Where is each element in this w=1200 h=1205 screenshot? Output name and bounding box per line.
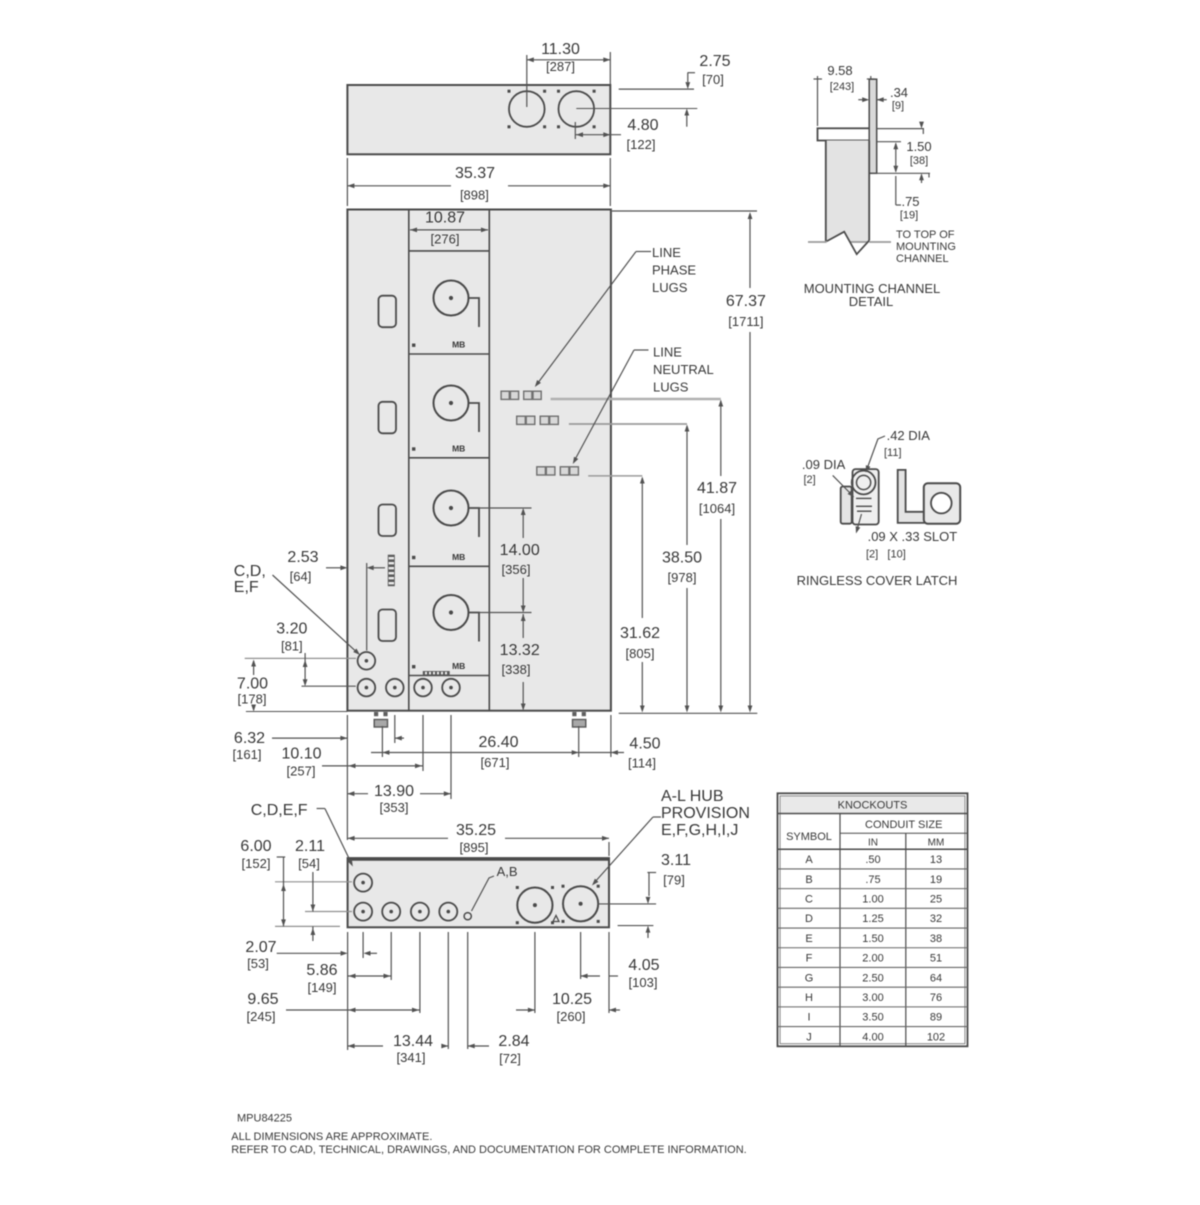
svg-text:MPU84225: MPU84225 [237, 1113, 292, 1125]
svg-text:LUGS: LUGS [652, 280, 688, 295]
svg-text:7.00: 7.00 [237, 676, 268, 693]
meter socket 2 ring [434, 386, 469, 421]
left knockout K1 [379, 296, 397, 328]
mounting channel flange [818, 128, 876, 140]
svg-text:LINE: LINE [652, 245, 681, 260]
svg-text:[79]: [79] [663, 873, 685, 888]
ground line [808, 241, 891, 243]
svg-text:CHANNEL: CHANNEL [896, 253, 949, 265]
line neutral lugs row 3 [537, 467, 546, 475]
svg-text:A-L HUB: A-L HUB [661, 788, 724, 805]
svg-text:25: 25 [930, 893, 942, 905]
svg-text:MOUNTING: MOUNTING [896, 241, 956, 253]
svg-text:.09 X .33 SLOT: .09 X .33 SLOT [868, 529, 958, 544]
leader .42 DIA [867, 436, 885, 470]
svg-text:[2]: [2] [804, 474, 816, 486]
meter socket 1 compartment divider [409, 353, 490, 355]
svg-text:C: C [805, 893, 813, 905]
dimension 38.50 [978] [686, 426, 688, 545]
svg-text:2.07: 2.07 [245, 939, 276, 956]
svg-text:MM: MM [928, 838, 945, 849]
row 1 extension line [551, 398, 721, 400]
svg-text:1.00: 1.00 [862, 893, 883, 905]
svg-text:76: 76 [930, 992, 942, 1004]
vertical striped knockout [388, 555, 395, 587]
svg-text:[898]: [898] [460, 188, 489, 203]
bottom row small circles [358, 679, 376, 697]
bottom view row of small circles [354, 903, 372, 921]
mounting channel detail 9.58 [243] dimension [817, 76, 819, 126]
svg-text:2.11: 2.11 [295, 838, 325, 855]
meter column right edge [488, 210, 490, 711]
svg-text:[11]: [11] [884, 447, 902, 459]
mounting channel foot right [572, 712, 576, 716]
meter socket 4 corner tick [412, 665, 415, 668]
svg-text:A: A [805, 854, 813, 866]
extension lines below front panel [346, 715, 348, 840]
meter socket 4 ring [434, 595, 469, 630]
svg-text:C,D,E,F: C,D,E,F [251, 802, 308, 819]
mounting channel foot left [374, 712, 378, 716]
svg-text:51: 51 [930, 953, 942, 965]
svg-text:[356]: [356] [502, 562, 531, 577]
leader A,B to tiny knockout [472, 876, 495, 911]
svg-text:NEUTRAL: NEUTRAL [653, 362, 714, 377]
svg-text:.34: .34 [890, 85, 908, 100]
panel bottom extension left [246, 711, 348, 713]
svg-text:89: 89 [930, 1012, 942, 1024]
latch body [853, 469, 879, 524]
leader C,D,E,F to circle [317, 808, 325, 810]
leader line through right circle center [576, 108, 697, 110]
dimension .75 [19] leader [895, 176, 897, 205]
dimension 11.30 [287] [526, 55, 528, 107]
svg-text:[81]: [81] [281, 639, 303, 654]
svg-text:TO TOP OF: TO TOP OF [896, 229, 955, 241]
svg-text:RINGLESS COVER LATCH: RINGLESS COVER LATCH [797, 573, 958, 588]
leader to line phase lugs [636, 251, 651, 253]
svg-text:A,B: A,B [497, 864, 518, 879]
svg-text:32: 32 [930, 913, 942, 925]
svg-text:2.50: 2.50 [862, 972, 883, 984]
meter socket 3 compartment divider [409, 565, 490, 567]
svg-text:E,F,G,H,I,J: E,F,G,H,I,J [661, 822, 738, 839]
svg-text:C,D,: C,D, [234, 563, 266, 580]
extension line from socket 3 center [470, 507, 532, 509]
svg-text:[2] [10]: [2] [10] [866, 549, 906, 561]
meter socket 1 ring [434, 281, 469, 316]
extension panel bottom left [275, 925, 340, 927]
svg-text:[671]: [671] [481, 755, 510, 770]
svg-text:[9]: [9] [892, 100, 904, 112]
meter socket 3 bypass hook [469, 508, 480, 537]
svg-text:[122]: [122] [627, 137, 656, 152]
dimension 67.37 [1711] [749, 214, 751, 288]
svg-text:.75: .75 [865, 874, 880, 886]
svg-text:3.20: 3.20 [276, 621, 307, 638]
meter socket 1 corner tick [412, 344, 415, 347]
dimension 35.25 [895] [608, 842, 610, 856]
meter socket 2 bypass hook [469, 403, 480, 432]
svg-text:[64]: [64] [290, 569, 312, 584]
svg-text:F: F [806, 953, 813, 965]
latch back plate [841, 487, 852, 524]
svg-text:35.37: 35.37 [455, 165, 495, 182]
svg-text:[245]: [245] [247, 1009, 276, 1024]
svg-text:.09 DIA: .09 DIA [802, 457, 846, 472]
svg-text:6.00: 6.00 [240, 838, 271, 855]
row1 extension line left [245, 657, 356, 659]
meter socket 4 bypass hook [469, 613, 480, 642]
svg-text:[978]: [978] [668, 570, 697, 585]
svg-text:41.87: 41.87 [697, 480, 737, 497]
dimension 13.32 [338] [522, 614, 524, 638]
meter column left edge [408, 210, 410, 711]
svg-text:[341]: [341] [397, 1050, 426, 1065]
svg-text:35.25: 35.25 [456, 822, 496, 839]
latch circle outer [852, 471, 876, 495]
svg-text:10.87: 10.87 [425, 210, 465, 227]
svg-text:G: G [805, 972, 814, 984]
svg-text:11.30: 11.30 [541, 41, 580, 58]
svg-text:MB: MB [452, 552, 465, 562]
left knockout K3 [379, 505, 397, 537]
svg-text:[1711]: [1711] [728, 314, 763, 329]
svg-text:[19]: [19] [900, 210, 918, 222]
meter socket 4 compartment divider [409, 675, 490, 677]
latch plate with hole [924, 483, 960, 523]
dimension 1.50 [38] [877, 141, 901, 143]
svg-text:[178]: [178] [238, 692, 267, 707]
svg-text:1.50: 1.50 [906, 139, 931, 154]
bottom extension line right of panel [619, 712, 758, 714]
svg-text:38: 38 [930, 933, 942, 945]
svg-text:9.58: 9.58 [827, 63, 852, 78]
svg-text:[53]: [53] [247, 956, 269, 971]
svg-text:3.50: 3.50 [862, 1012, 883, 1024]
svg-text:4.05: 4.05 [628, 957, 659, 974]
svg-text:DETAIL: DETAIL [849, 294, 894, 309]
meter socket 1 bypass hook [469, 298, 480, 327]
dimension 41.87 [1064] [720, 401, 722, 476]
dimension 35.37 [898] [346, 158, 348, 206]
svg-text:CONDUIT SIZE: CONDUIT SIZE [865, 819, 942, 831]
svg-text:E: E [805, 933, 812, 945]
knockouts table header cells [839, 814, 841, 1047]
svg-text:13: 13 [930, 854, 942, 866]
svg-text:IN: IN [868, 838, 878, 849]
svg-text:[805]: [805] [626, 646, 655, 661]
bottom view top edge emphasis [348, 858, 609, 860]
svg-text:2.00: 2.00 [862, 953, 883, 965]
dimension .34 [9] [858, 99, 866, 101]
latch circle inner [857, 475, 871, 489]
triangle mark between hubs [553, 916, 559, 922]
svg-text:[243]: [243] [830, 81, 854, 93]
svg-text:13.90: 13.90 [374, 783, 414, 800]
svg-text:PHASE: PHASE [652, 263, 696, 278]
svg-text:MB: MB [452, 443, 465, 453]
dimension 10.87 [276] [410, 229, 488, 231]
svg-text:2.84: 2.84 [498, 1033, 529, 1050]
svg-text:KNOCKOUTS: KNOCKOUTS [838, 800, 908, 812]
svg-text:2.75: 2.75 [699, 53, 730, 70]
svg-text:9.65: 9.65 [247, 991, 278, 1008]
svg-text:J: J [806, 1031, 812, 1043]
svg-text:LUGS: LUGS [653, 380, 689, 395]
svg-text:64: 64 [930, 972, 942, 984]
svg-text:13.32: 13.32 [500, 642, 540, 659]
svg-text:[54]: [54] [298, 856, 320, 871]
svg-text:31.62: 31.62 [620, 625, 660, 642]
svg-text:MB: MB [452, 340, 465, 350]
svg-text:[149]: [149] [308, 980, 337, 995]
svg-text:3.00: 3.00 [862, 992, 883, 1004]
svg-text:19: 19 [930, 874, 942, 886]
svg-text:E,F: E,F [234, 579, 259, 596]
leader A-L hub to right hub circle [653, 816, 661, 818]
row 3 extension line [588, 475, 642, 477]
extension line from socket 4 center [470, 612, 532, 614]
svg-text:MB: MB [452, 661, 465, 671]
svg-text:[161]: [161] [233, 747, 262, 762]
meter socket 2 compartment divider [409, 457, 490, 459]
svg-text:[72]: [72] [499, 1051, 521, 1066]
svg-text:H: H [805, 992, 813, 1004]
left knockout K4 [379, 610, 397, 642]
svg-text:D: D [805, 913, 813, 925]
svg-text:5.86: 5.86 [306, 962, 337, 979]
svg-text:4.80: 4.80 [627, 117, 658, 134]
horizontal striped knockout above bottom circles [423, 671, 450, 675]
mounting channel body [826, 141, 869, 242]
extension top of mounting channel [877, 128, 924, 130]
svg-text:[114]: [114] [628, 756, 656, 771]
dimension 4.80 [122] [574, 122, 576, 139]
knockouts table title row [781, 797, 965, 813]
svg-text:[260]: [260] [557, 1009, 586, 1024]
extension from small circle row1 left [275, 881, 352, 883]
svg-text:[895]: [895] [460, 840, 489, 855]
step line and .75 arrows [872, 172, 930, 174]
svg-text:[152]: [152] [242, 856, 271, 871]
top extension line for 67.37 [612, 210, 757, 212]
line neutral lugs row 2 [517, 416, 526, 424]
svg-text:14.00: 14.00 [500, 542, 540, 559]
svg-text:[276]: [276] [431, 232, 460, 247]
svg-text:[353]: [353] [380, 800, 409, 815]
svg-text:[1064]: [1064] [699, 501, 735, 516]
svg-text:1.50: 1.50 [862, 933, 883, 945]
svg-text:SYMBOL: SYMBOL [786, 831, 832, 843]
top view knockout circle right [559, 91, 595, 127]
svg-text:[38]: [38] [910, 155, 928, 167]
svg-text:[70]: [70] [702, 72, 724, 87]
svg-text:67.37: 67.37 [726, 293, 766, 310]
tiny knockout A,B [464, 913, 471, 920]
row2 extension line left [302, 685, 356, 687]
leader slot [857, 514, 862, 531]
svg-text:4.50: 4.50 [629, 736, 660, 753]
dimension 31.62 [805] [641, 478, 643, 618]
large hub circle right [563, 886, 598, 921]
svg-text:I: I [807, 1012, 810, 1024]
svg-text:1.25: 1.25 [862, 913, 883, 925]
bottom view enclosure outline [348, 858, 609, 927]
row 2 extension line [569, 423, 687, 425]
latch bracket L-shape [898, 470, 925, 523]
extension from small circle row2 left [305, 911, 352, 913]
channel break symbol [826, 232, 870, 258]
svg-text:4.00: 4.00 [862, 1031, 883, 1043]
svg-text:REFER TO CAD, TECHNICAL, DRAWI: REFER TO CAD, TECHNICAL, DRAWINGS, AND D… [231, 1144, 746, 1156]
top view enclosure outline [347, 85, 610, 154]
mounting channel back tab [869, 79, 877, 173]
front view enclosure outline [347, 210, 611, 711]
meter socket 3 corner tick [412, 556, 415, 559]
svg-text:10.25: 10.25 [552, 991, 592, 1008]
svg-text:PROVISION: PROVISION [661, 805, 750, 822]
svg-text:.75: .75 [901, 194, 919, 209]
left extension lines below bottom view [347, 932, 349, 1050]
svg-text:102: 102 [927, 1031, 945, 1043]
svg-text:13.44: 13.44 [393, 1033, 433, 1050]
svg-text:[103]: [103] [629, 975, 658, 990]
meter column top line [409, 250, 490, 252]
meter socket 3 ring [434, 491, 469, 526]
svg-text:[257]: [257] [287, 764, 316, 779]
svg-text:2.53: 2.53 [287, 549, 318, 566]
svg-text:[338]: [338] [502, 662, 531, 677]
svg-text:B: B [805, 874, 812, 886]
svg-text:3.11: 3.11 [661, 852, 691, 869]
knockout column 1 extension line [366, 563, 368, 651]
svg-text:10.10: 10.10 [281, 746, 321, 763]
meter socket 2 corner tick [412, 447, 415, 450]
latch slot lines [856, 497, 872, 499]
svg-text:LINE: LINE [653, 345, 682, 360]
svg-text:.42 DIA: .42 DIA [887, 428, 931, 443]
svg-text:[287]: [287] [546, 59, 575, 74]
svg-text:38.50: 38.50 [662, 550, 702, 567]
svg-text:ALL DIMENSIONS ARE APPROXIMATE: ALL DIMENSIONS ARE APPROXIMATE. [231, 1131, 432, 1143]
leader .09 DIA [833, 475, 853, 495]
dimension 14.00 [356] [522, 510, 524, 539]
small knockout circle C,D,E,F [358, 652, 376, 670]
left knockout K2 [379, 402, 397, 434]
svg-text:26.40: 26.40 [478, 734, 518, 751]
top view knockout circle left [509, 91, 545, 127]
bottom view small circle C,D,E,F [354, 874, 372, 892]
large hub circle left [517, 888, 552, 923]
leader to line neutral lugs [634, 349, 649, 351]
knockouts table outer border [778, 793, 968, 1046]
svg-text:6.32: 6.32 [234, 730, 265, 747]
svg-text:.50: .50 [865, 854, 880, 866]
line phase lugs row 1 [501, 391, 509, 399]
leader C,D,E,F to knockout circle [273, 575, 358, 653]
